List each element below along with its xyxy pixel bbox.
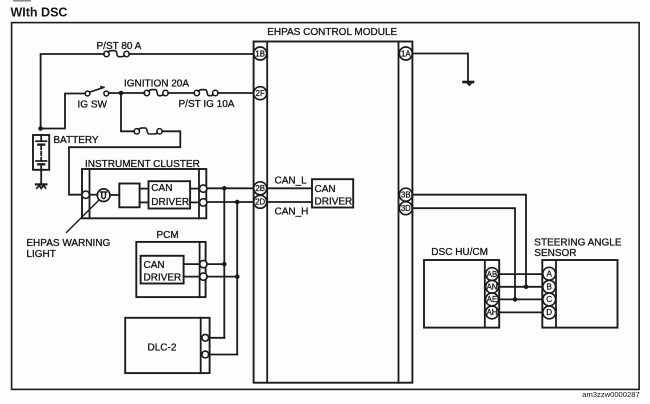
connector cluster right CAN_H: [200, 199, 207, 206]
pin C: [543, 293, 556, 306]
svg-text:B: B: [547, 283, 552, 292]
svg-text:2B: 2B: [255, 184, 265, 193]
wire cluster to pin 2B: [207, 187, 254, 189]
svg-text:DRIVER: DRIVER: [151, 197, 189, 208]
leader line warning light: [67, 200, 100, 233]
wire CAN_L bus vertical: [223, 188, 225, 337]
wire battery to ground: [40, 170, 42, 184]
junction 3B to B wire: [524, 285, 529, 290]
wire between fuses: [168, 92, 194, 94]
EHPAS control module box U1: [254, 42, 413, 383]
junction 3D to C wire: [513, 297, 518, 302]
svg-text:AH: AH: [487, 308, 498, 317]
svg-text:EHPAS WARNING: EHPAS WARNING: [26, 238, 110, 249]
junction PCM CAN_H: [235, 274, 240, 279]
svg-text:AB: AB: [487, 270, 497, 279]
pin 3B: [399, 188, 412, 201]
svg-text:IG SW: IG SW: [78, 99, 108, 110]
wire fuse to pin 2F: [218, 92, 254, 94]
svg-text:CAN_H: CAN_H: [275, 206, 309, 217]
svg-text:CAN: CAN: [151, 183, 172, 194]
pin AE: [486, 293, 499, 306]
PCM box: [136, 242, 205, 297]
svg-text:P/ST IG 10A: P/ST IG 10A: [179, 99, 235, 110]
svg-text:2F: 2F: [256, 89, 265, 98]
pin 1B: [254, 47, 267, 60]
top cut-off text remnant: [13, 0, 31, 2]
wire battery to IG SW: [41, 94, 86, 129]
svg-text:INSTRUMENT CLUSTER: INSTRUMENT CLUSTER: [85, 159, 200, 170]
label CAN DRIVER PCM: [144, 260, 182, 283]
wire pin 3B to sensor bus: [412, 195, 526, 287]
svg-text:EHPAS CONTROL MODULE: EHPAS CONTROL MODULE: [267, 27, 397, 38]
wire pin 3D to sensor bus: [412, 208, 515, 299]
junction CAN_H bus top: [235, 200, 240, 205]
pin B: [543, 280, 556, 293]
svg-text:CAN_L: CAN_L: [275, 175, 308, 186]
svg-text:3D: 3D: [401, 204, 411, 213]
fuse IGNITION 20A: [144, 90, 168, 96]
ground battery: [36, 184, 46, 188]
label CAN DRIVER cluster: [151, 183, 189, 208]
pin AH: [486, 306, 499, 319]
pin D: [543, 306, 556, 319]
svg-text:D: D: [546, 308, 552, 317]
wire fuse to pin 1B: [129, 53, 253, 55]
pin 3D: [399, 202, 412, 215]
label EHPAS WARNING LIGHT: [26, 238, 110, 260]
wire DLC-2 to CAN_L bus: [209, 337, 225, 339]
pin 1A: [399, 47, 412, 60]
CAN driver PCM box: [141, 256, 184, 284]
fuse P/ST IG 10A: [194, 90, 218, 96]
DLC-2 box: [125, 318, 209, 373]
junction battery node: [38, 126, 43, 131]
svg-text:SENSOR: SENSOR: [534, 248, 576, 259]
svg-text:3B: 3B: [401, 191, 411, 200]
fuse unlabeled: [134, 128, 162, 134]
ground EHPAS: [464, 82, 474, 86]
connector PCM top: [200, 260, 207, 267]
connector cluster left: [82, 191, 89, 198]
wire fuse to instrument cluster: [69, 131, 180, 194]
pin 2D: [254, 195, 267, 208]
svg-text:IGNITION 20A: IGNITION 20A: [124, 79, 189, 90]
wire IG SW to junction: [109, 92, 145, 94]
svg-text:1B: 1B: [255, 49, 265, 58]
connector PCM bottom: [200, 273, 207, 280]
svg-text:A: A: [547, 269, 553, 278]
svg-text:WIth DSC: WIth DSC: [11, 6, 68, 20]
svg-text:CAN: CAN: [144, 260, 165, 271]
svg-text:CAN: CAN: [315, 184, 336, 195]
wire AN to B: [498, 286, 543, 288]
pin 2F: [254, 87, 267, 100]
battery B1: [33, 135, 49, 170]
wire PCM to CAN_H bus: [207, 276, 237, 278]
svg-text:PCM: PCM: [157, 230, 179, 241]
svg-text:DSC HU/CM: DSC HU/CM: [431, 247, 488, 258]
pin 2B: [254, 182, 267, 195]
svg-text:LIGHT: LIGHT: [26, 249, 55, 260]
lamp EHPAS warning light: [89, 189, 109, 202]
wire box to CAN driver (CAN_H): [140, 201, 149, 203]
pin AN: [486, 280, 499, 293]
svg-text:2D: 2D: [255, 198, 265, 207]
connector DLC-2 top: [202, 334, 209, 341]
svg-text:STEERING ANGLE: STEERING ANGLE: [534, 237, 622, 248]
instrument cluster box: [82, 169, 206, 218]
svg-text:DRIVER: DRIVER: [144, 272, 182, 283]
wire junction to unlabeled fuse: [121, 93, 134, 131]
svg-text:AN: AN: [487, 283, 498, 292]
box cluster inner module: [119, 184, 139, 208]
wire CAN_H bus vertical: [236, 202, 238, 355]
junction ignition node: [119, 91, 124, 96]
DSC HU/CM box: [424, 260, 499, 328]
svg-text:1A: 1A: [401, 49, 411, 58]
svg-text:BATTERY: BATTERY: [53, 135, 99, 146]
connector DLC-2 bottom: [202, 351, 209, 358]
wire cluster to pin 2D: [207, 201, 254, 203]
CAN driver cluster box: [149, 181, 191, 208]
label CAN DRIVER EHPAS: [315, 184, 353, 208]
steering angle sensor box: [542, 260, 617, 328]
wire AH to D: [498, 311, 543, 313]
svg-text:AE: AE: [487, 295, 497, 304]
wire AE to C: [498, 298, 543, 300]
wire pin 1A to ground: [412, 54, 468, 82]
wire pin 2D internal CAN_H: [267, 201, 312, 203]
svg-text:am3zzw0000287: am3zzw0000287: [582, 390, 639, 399]
wire DLC-2 to CAN_H bus: [209, 354, 238, 356]
svg-text:DLC-2: DLC-2: [148, 343, 177, 354]
wire AB to A: [498, 273, 543, 275]
wire PCM CAN driver to connectors: [184, 264, 200, 277]
wire box to CAN driver (CAN_L): [140, 188, 149, 190]
svg-text:P/ST 80 A: P/ST 80 A: [97, 41, 142, 52]
wire lamp to resistor box: [110, 194, 119, 196]
connector cluster right CAN_L: [200, 185, 207, 192]
wire CAN driver to right connectors: [190, 189, 199, 203]
fuse P/ST 80 A: [104, 51, 129, 57]
junction CAN_L bus top: [222, 186, 227, 191]
pin AB: [486, 268, 499, 281]
svg-text:DRIVER: DRIVER: [315, 196, 353, 207]
pin A: [543, 267, 556, 280]
wire battery to P/ST 80A row: [41, 54, 104, 129]
switch IG SW: [85, 87, 109, 96]
wire PCM to CAN_L bus: [207, 263, 224, 265]
svg-text:C: C: [546, 295, 552, 304]
label STEERING ANGLE SENSOR: [534, 237, 622, 259]
junction PCM CAN_L: [222, 262, 227, 267]
wire pin 2B internal CAN_L: [267, 187, 312, 189]
CAN driver EHPAS box: [312, 179, 353, 207]
